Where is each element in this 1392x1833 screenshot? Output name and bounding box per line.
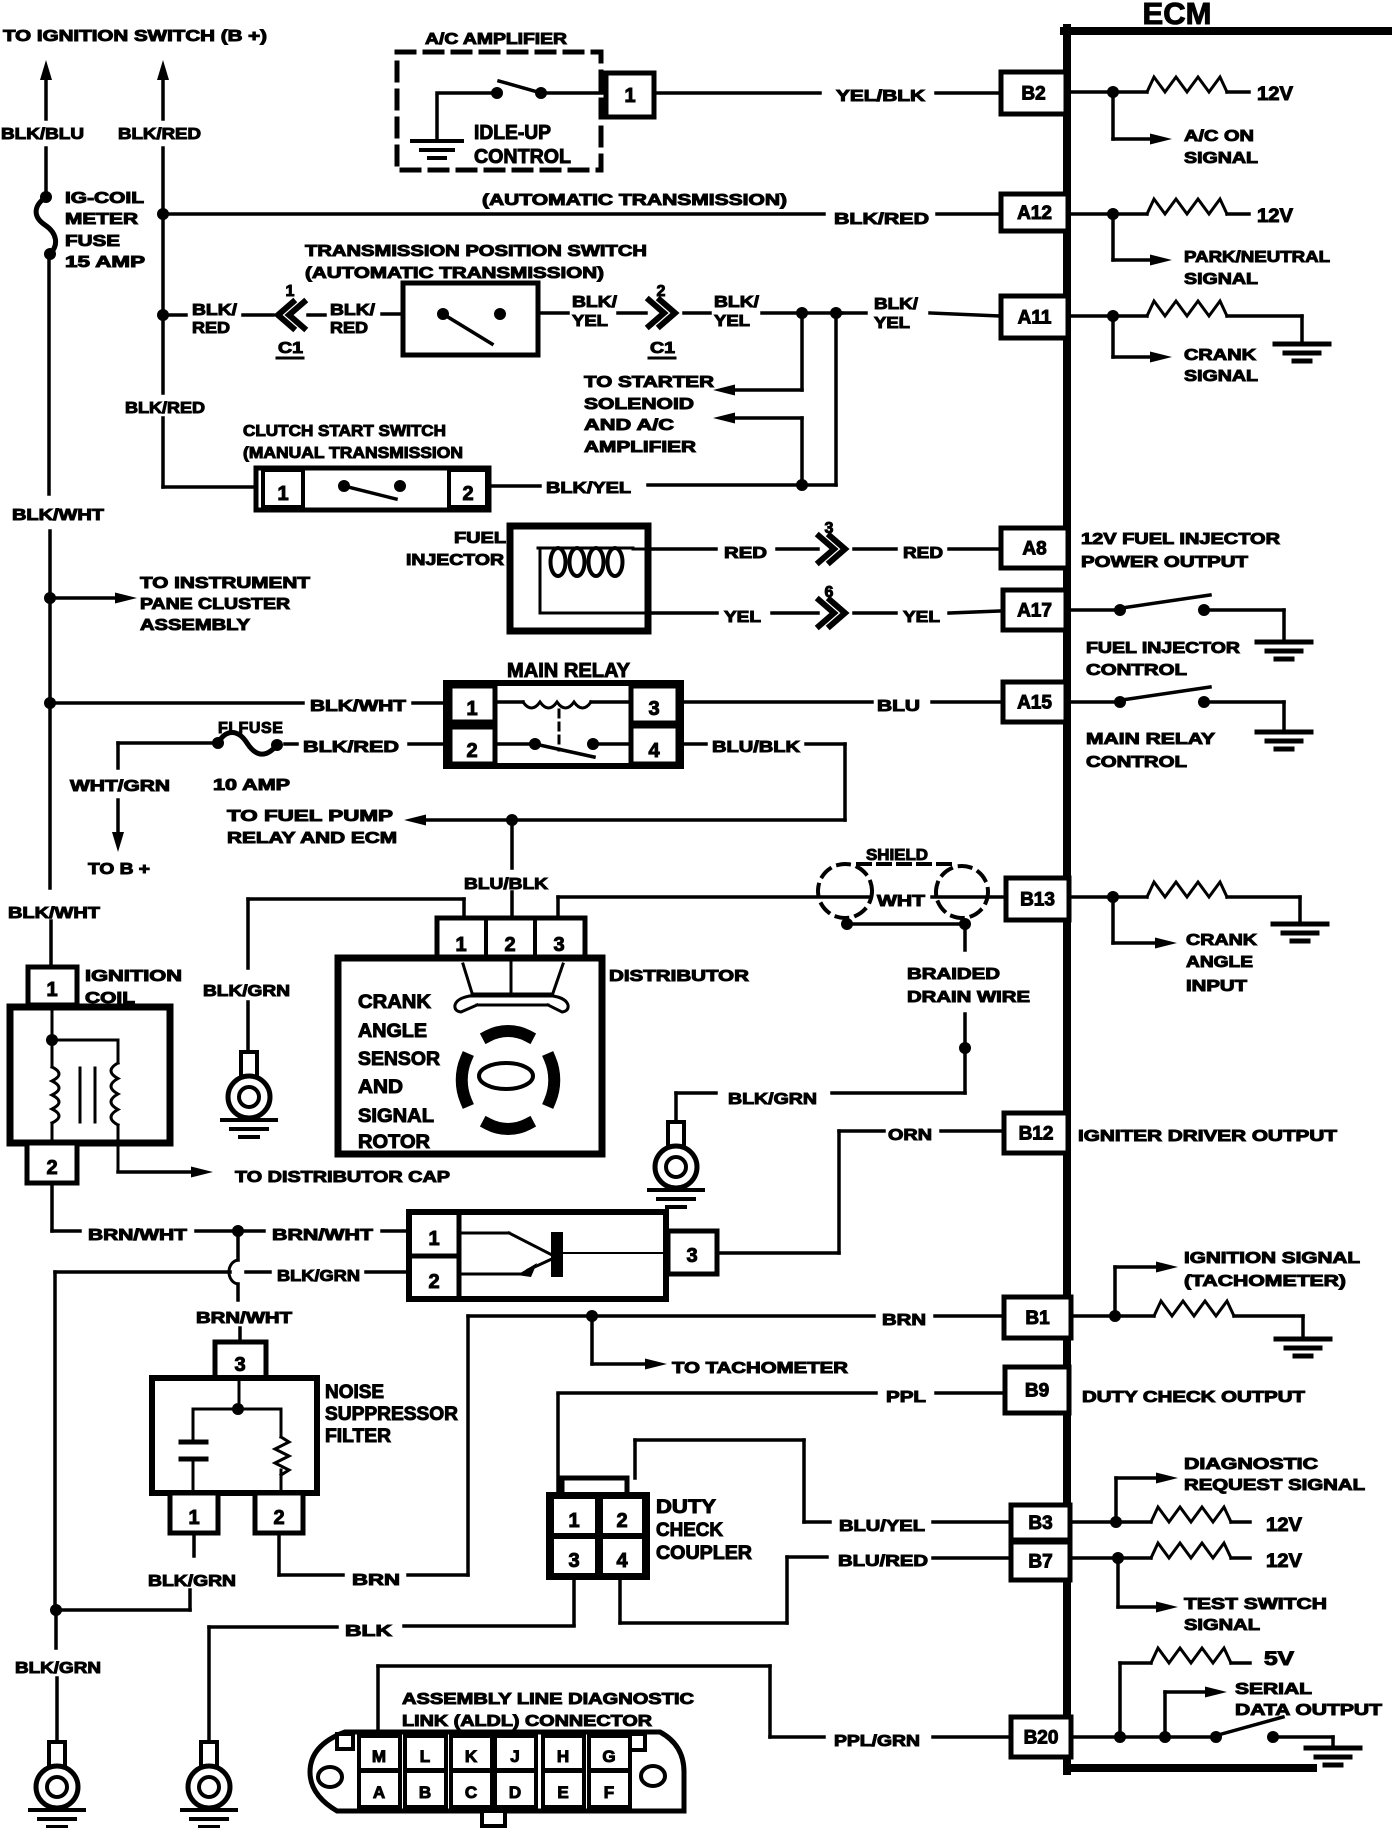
svg-text:BLK/WHT: BLK/WHT [8, 905, 100, 922]
svg-text:ANGLE: ANGLE [1186, 954, 1253, 971]
svg-text:POWER OUTPUT: POWER OUTPUT [1081, 554, 1248, 571]
svg-text:RED: RED [724, 545, 767, 562]
svg-text:D: D [509, 1783, 521, 1802]
svg-text:INPUT: INPUT [1186, 978, 1247, 995]
svg-text:1: 1 [428, 1228, 439, 1250]
svg-text:PANE CLUSTER: PANE CLUSTER [140, 596, 291, 613]
svg-text:LINK (ALDL) CONNECTOR: LINK (ALDL) CONNECTOR [402, 1713, 653, 1730]
svg-text:12V: 12V [1266, 1551, 1302, 1572]
svg-text:ASSEMBLY LINE DIAGNOSTIC: ASSEMBLY LINE DIAGNOSTIC [402, 1691, 695, 1708]
svg-text:2: 2 [616, 1510, 627, 1532]
svg-text:BLK/: BLK/ [714, 294, 760, 311]
svg-text:B3: B3 [1028, 1513, 1052, 1534]
svg-text:BLK/RED: BLK/RED [834, 211, 929, 228]
svg-text:5V: 5V [1264, 1649, 1294, 1670]
svg-text:AND: AND [358, 1077, 403, 1098]
svg-text:1: 1 [455, 934, 466, 956]
svg-text:RED: RED [903, 545, 943, 562]
svg-text:AMPLIFIER: AMPLIFIER [584, 439, 697, 456]
svg-text:COUPLER: COUPLER [656, 1543, 752, 1564]
svg-text:3: 3 [234, 1354, 245, 1376]
svg-text:BLK/GRN: BLK/GRN [203, 983, 290, 1000]
svg-text:15 AMP: 15 AMP [65, 254, 145, 271]
svg-text:DUTY CHECK OUTPUT: DUTY CHECK OUTPUT [1082, 1389, 1305, 1406]
svg-text:A12: A12 [1017, 203, 1052, 224]
svg-text:ROTOR: ROTOR [358, 1132, 430, 1153]
svg-text:BLK/RED: BLK/RED [118, 126, 201, 143]
svg-text:SIGNAL: SIGNAL [1184, 1617, 1260, 1634]
svg-text:BRN/WHT: BRN/WHT [88, 1227, 187, 1244]
svg-text:INJECTOR: INJECTOR [406, 552, 505, 569]
svg-text:SIGNAL: SIGNAL [1184, 271, 1258, 288]
svg-text:A: A [373, 1783, 385, 1802]
svg-text:B7: B7 [1028, 1552, 1052, 1573]
svg-text:BLK/RED: BLK/RED [125, 400, 205, 417]
svg-text:1: 1 [286, 283, 295, 300]
svg-text:E: E [557, 1783, 568, 1802]
svg-text:(TACHOMETER): (TACHOMETER) [1184, 1273, 1346, 1290]
svg-text:BRAIDED: BRAIDED [907, 966, 1000, 983]
svg-text:PARK/NEUTRAL: PARK/NEUTRAL [1184, 249, 1330, 266]
svg-text:BLK/GRN: BLK/GRN [277, 1268, 360, 1285]
svg-text:IGNITION: IGNITION [85, 968, 182, 985]
svg-text:K: K [465, 1747, 478, 1766]
svg-text:ORN: ORN [888, 1127, 932, 1144]
svg-text:6: 6 [825, 584, 834, 601]
svg-text:RED: RED [192, 320, 230, 337]
svg-text:BLK/BLU: BLK/BLU [1, 126, 84, 143]
svg-text:SIGNAL: SIGNAL [1184, 368, 1258, 385]
svg-text:REQUEST SIGNAL: REQUEST SIGNAL [1184, 1477, 1365, 1494]
svg-text:3: 3 [568, 1550, 579, 1572]
svg-text:2: 2 [657, 283, 666, 300]
svg-text:ASSEMBLY: ASSEMBLY [140, 617, 250, 634]
svg-text:CRANK: CRANK [358, 992, 431, 1013]
svg-text:FUEL: FUEL [454, 530, 506, 547]
svg-text:IGNITER DRIVER OUTPUT: IGNITER DRIVER OUTPUT [1078, 1128, 1337, 1145]
svg-text:PPL/GRN: PPL/GRN [834, 1733, 920, 1750]
svg-text:12V: 12V [1266, 1515, 1302, 1536]
svg-text:L: L [420, 1747, 430, 1766]
svg-text:YEL: YEL [572, 313, 608, 330]
svg-text:TO FUEL PUMP: TO FUEL PUMP [227, 808, 393, 825]
svg-text:BLU/RED: BLU/RED [838, 1553, 928, 1570]
svg-text:M: M [372, 1747, 386, 1766]
svg-text:1: 1 [624, 85, 635, 107]
svg-text:1: 1 [46, 979, 57, 1001]
svg-text:4: 4 [648, 740, 660, 762]
svg-text:CONTROL: CONTROL [474, 146, 571, 168]
svg-text:H: H [557, 1747, 569, 1766]
svg-text:BLK/: BLK/ [572, 294, 618, 311]
svg-text:PPL: PPL [886, 1389, 926, 1406]
svg-text:2: 2 [428, 1271, 439, 1293]
svg-text:BLU/BLK: BLU/BLK [712, 739, 801, 756]
svg-text:IG-COIL: IG-COIL [65, 190, 144, 207]
svg-text:1: 1 [188, 1507, 199, 1529]
svg-text:C1: C1 [650, 340, 675, 357]
svg-text:10 AMP: 10 AMP [213, 777, 290, 794]
svg-text:RED: RED [330, 320, 368, 337]
svg-text:C: C [465, 1783, 477, 1802]
svg-text:FILTER: FILTER [325, 1426, 391, 1447]
svg-text:BLK: BLK [345, 1623, 393, 1640]
svg-text:WHT/GRN: WHT/GRN [70, 778, 170, 795]
svg-text:BLU/BLK: BLU/BLK [464, 876, 549, 893]
svg-text:C1: C1 [278, 340, 303, 357]
svg-text:12V FUEL INJECTOR: 12V FUEL INJECTOR [1081, 531, 1281, 548]
svg-text:BRN/WHT: BRN/WHT [196, 1310, 292, 1327]
svg-text:(AUTOMATIC TRANSMISSION): (AUTOMATIC TRANSMISSION) [482, 192, 787, 209]
svg-text:CHECK: CHECK [656, 1520, 723, 1541]
svg-text:CLUTCH START SWITCH: CLUTCH START SWITCH [243, 423, 446, 440]
svg-text:12V: 12V [1257, 84, 1293, 105]
svg-text:A/C ON: A/C ON [1184, 128, 1254, 145]
svg-text:TO INSTRUMENT: TO INSTRUMENT [140, 575, 310, 592]
svg-text:IGNITION SIGNAL: IGNITION SIGNAL [1184, 1250, 1360, 1267]
svg-text:DISTRIBUTOR: DISTRIBUTOR [609, 968, 750, 985]
svg-text:BRN: BRN [352, 1572, 400, 1589]
svg-text:A15: A15 [1017, 693, 1052, 714]
svg-text:IDLE-UP: IDLE-UP [474, 122, 551, 144]
svg-text:SERIAL: SERIAL [1235, 1681, 1312, 1698]
svg-text:TO IGNITION SWITCH (B +): TO IGNITION SWITCH (B +) [3, 28, 267, 45]
svg-text:TO DISTRIBUTOR CAP: TO DISTRIBUTOR CAP [235, 1169, 450, 1186]
svg-text:SHIELD: SHIELD [866, 847, 928, 864]
svg-text:B20: B20 [1024, 1728, 1059, 1749]
svg-text:1: 1 [277, 483, 288, 505]
svg-text:YEL: YEL [903, 609, 940, 626]
svg-text:(AUTOMATIC TRANSMISSION): (AUTOMATIC TRANSMISSION) [305, 265, 604, 282]
svg-text:SIGNAL: SIGNAL [358, 1106, 434, 1127]
svg-text:CRANK: CRANK [1184, 347, 1257, 364]
svg-text:BRN/WHT: BRN/WHT [272, 1227, 373, 1244]
svg-text:BLK/: BLK/ [330, 302, 376, 319]
svg-text:1: 1 [466, 698, 477, 720]
svg-text:3: 3 [648, 698, 659, 720]
svg-text:RELAY AND ECM: RELAY AND ECM [227, 830, 397, 847]
svg-text:BLK/WHT: BLK/WHT [12, 507, 104, 524]
svg-text:2: 2 [462, 483, 473, 505]
svg-text:SUPPRESSOR: SUPPRESSOR [325, 1404, 458, 1425]
svg-text:B2: B2 [1021, 84, 1045, 105]
svg-text:SIGNAL: SIGNAL [1184, 150, 1258, 167]
svg-text:A17: A17 [1017, 601, 1052, 622]
svg-text:2: 2 [46, 1157, 57, 1179]
svg-text:FUEL INJECTOR: FUEL INJECTOR [1086, 640, 1241, 657]
svg-text:4: 4 [616, 1550, 628, 1572]
svg-text:FUSE: FUSE [65, 233, 120, 250]
svg-text:BLK/GRN: BLK/GRN [148, 1573, 236, 1590]
svg-text:CONTROL: CONTROL [1086, 754, 1187, 771]
svg-text:TO B +: TO B + [88, 861, 150, 878]
svg-text:CONTROL: CONTROL [1086, 662, 1187, 679]
svg-text:CRANK: CRANK [1186, 932, 1258, 949]
svg-text:WHT: WHT [877, 893, 925, 910]
svg-text:BLU/YEL: BLU/YEL [839, 1518, 925, 1535]
svg-text:NOISE: NOISE [325, 1382, 384, 1403]
svg-text:B12: B12 [1019, 1124, 1054, 1145]
svg-text:YEL: YEL [874, 315, 910, 332]
svg-text:BLK/WHT: BLK/WHT [310, 698, 406, 715]
svg-text:B1: B1 [1025, 1308, 1050, 1329]
svg-text:3: 3 [825, 520, 834, 537]
svg-text:BLK/: BLK/ [874, 296, 919, 313]
svg-text:2: 2 [273, 1507, 284, 1529]
svg-text:DIAGNOSTIC: DIAGNOSTIC [1184, 1456, 1319, 1473]
svg-text:TO STARTER: TO STARTER [584, 374, 715, 391]
svg-text:TO TACHOMETER: TO TACHOMETER [672, 1360, 849, 1377]
svg-text:MAIN RELAY: MAIN RELAY [1086, 731, 1215, 748]
svg-text:B: B [419, 1783, 431, 1802]
svg-text:BLK/YEL: BLK/YEL [546, 480, 631, 497]
svg-text:SOLENOID: SOLENOID [584, 396, 694, 413]
svg-text:DATA OUTPUT: DATA OUTPUT [1235, 1702, 1382, 1719]
svg-text:(MANUAL TRANSMISSION: (MANUAL TRANSMISSION [243, 445, 463, 462]
svg-text:B13: B13 [1020, 890, 1055, 911]
svg-text:2: 2 [504, 934, 515, 956]
svg-text:A11: A11 [1018, 308, 1052, 329]
svg-text:SENSOR: SENSOR [358, 1049, 440, 1070]
svg-text:YEL/BLK: YEL/BLK [836, 88, 926, 105]
svg-text:A8: A8 [1022, 539, 1046, 560]
svg-text:DRAIN WIRE: DRAIN WIRE [907, 989, 1030, 1006]
svg-text:2: 2 [466, 740, 477, 762]
svg-text:BLK/GRN: BLK/GRN [728, 1091, 817, 1108]
svg-text:3: 3 [553, 934, 564, 956]
svg-text:BLK/: BLK/ [192, 302, 238, 319]
svg-text:ECM: ECM [1143, 0, 1212, 31]
svg-text:G: G [602, 1747, 615, 1766]
svg-text:12V: 12V [1257, 206, 1293, 227]
svg-text:1: 1 [568, 1510, 579, 1532]
svg-text:J: J [510, 1747, 519, 1766]
svg-text:A/C AMPLIFIER: A/C AMPLIFIER [425, 31, 568, 48]
svg-text:3: 3 [686, 1245, 697, 1267]
svg-text:F: F [604, 1783, 614, 1802]
svg-text:MAIN RELAY: MAIN RELAY [507, 660, 631, 682]
svg-text:METER: METER [65, 211, 139, 228]
svg-text:DUTY: DUTY [656, 1497, 716, 1518]
svg-text:ANGLE: ANGLE [358, 1021, 427, 1042]
svg-text:BLK/RED: BLK/RED [303, 739, 399, 756]
svg-text:TRANSMISSION POSITION SWITCH: TRANSMISSION POSITION SWITCH [305, 243, 647, 260]
svg-text:YEL: YEL [724, 609, 761, 626]
svg-text:BRN: BRN [882, 1312, 926, 1329]
svg-text:BLK/GRN: BLK/GRN [15, 1660, 101, 1677]
svg-text:AND A/C: AND A/C [584, 417, 675, 434]
svg-text:TEST SWITCH: TEST SWITCH [1184, 1596, 1327, 1613]
svg-text:YEL: YEL [714, 313, 750, 330]
svg-text:B9: B9 [1025, 1381, 1049, 1402]
svg-text:BLU: BLU [877, 698, 920, 715]
